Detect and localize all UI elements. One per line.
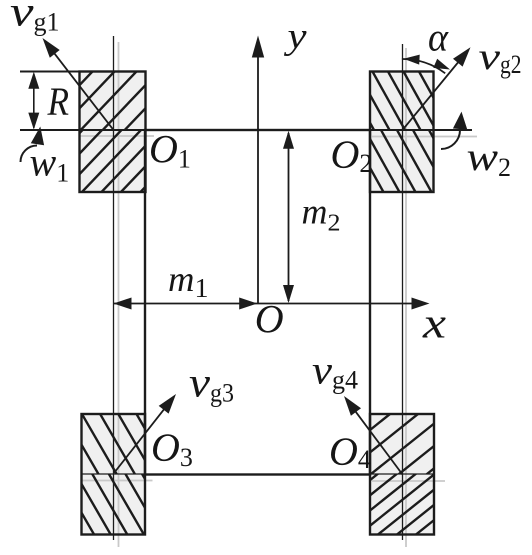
alpha arc right arrowhead (433, 59, 450, 70)
wheel O3 body fill (82, 414, 146, 535)
svg-text:R: R (47, 79, 69, 124)
wheel O2 outline (370, 72, 434, 193)
rear axle thin line wheel O4 (370, 473, 435, 475)
wheel O2 hatching upper half (290, 0, 514, 521)
y axis arrow (257, 52, 259, 304)
wheel O3 hatching upper half (2, 23, 226, 555)
v_g1 velocity arrow (50, 47, 114, 130)
gray center mark wheel O1 (79, 135, 154, 137)
wheel O1 outline (80, 72, 146, 193)
rear axle thin line wheel O3 (81, 473, 146, 475)
left wheels centerline vertical (113, 36, 115, 540)
svg-text:α: α (428, 15, 449, 60)
front axle line through O1,O2 (20, 129, 472, 131)
v_g2 velocity arrow (403, 56, 464, 131)
gray center mark wheel O2 (372, 136, 477, 138)
v_g3 velocity arrow (114, 402, 170, 473)
m2 dimension arrow (288, 133, 290, 301)
wheel O4 hatching lower half (290, 304, 514, 555)
wheel O1 body fill (80, 72, 146, 193)
svg-text:O: O (255, 297, 284, 342)
alpha arc left arrowhead (404, 55, 420, 65)
wheel O3 outline (82, 414, 146, 535)
R dimension arrow (33, 74, 35, 128)
svg-text:x: x (422, 301, 446, 348)
gray centerline right wheels (405, 48, 407, 547)
right wheels centerline vertical (402, 44, 404, 540)
wheel O4 outline (370, 414, 434, 535)
m1 right arrowhead at origin (239, 298, 257, 310)
gray centerline left wheels (118, 42, 120, 547)
wheel O2 hatching lower half (290, 0, 514, 555)
wheel O4 body fill (370, 414, 434, 535)
gray center mark wheel O3 (81, 480, 153, 482)
m1 left arrowhead (114, 298, 132, 310)
wheel O4 hatching upper half (290, 248, 514, 555)
wheel top tangent line for R (20, 71, 146, 73)
wheel O1 hatching upper half (0, 0, 226, 354)
robot frame rectangle (145, 130, 370, 475)
w1 rotation arrow (21, 146, 38, 163)
x axis arrowhead (412, 298, 430, 310)
w2 rotation arrow (441, 130, 460, 149)
wheel O1 hatching lower half (0, 0, 226, 422)
wheel O3 hatching lower half (2, 87, 226, 555)
gray center mark wheel O4 (372, 480, 445, 482)
v_g4 velocity arrow (350, 404, 403, 475)
wheel O2 body fill (370, 72, 434, 193)
x axis / m1 dimension line (114, 303, 413, 305)
alpha angle arc (402, 59, 445, 73)
